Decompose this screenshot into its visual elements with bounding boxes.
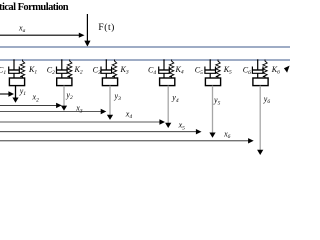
svg-text:tical Formulation: tical Formulation [0, 2, 69, 13]
force arrow F(t) [84, 14, 115, 47]
svg-text:K1: K1 [28, 65, 37, 76]
svg-text:y6: y6 [263, 95, 271, 106]
svg-text:x2: x2 [32, 93, 40, 104]
svg-text:C3: C3 [93, 66, 101, 77]
svg-text:C2: C2 [47, 66, 55, 77]
displacement arrow y2 [61, 86, 73, 111]
svg-text:C4: C4 [148, 66, 156, 77]
arrow x4 (horizontal reference) [0, 109, 165, 124]
arrow x6 (horizontal reference) [0, 129, 254, 143]
damper C6 [243, 59, 263, 78]
displacement arrow y5 [209, 86, 220, 138]
spring K2 [68, 60, 83, 79]
damper C3 [93, 59, 112, 78]
svg-text:x4: x4 [125, 109, 133, 120]
damper C2 [47, 59, 67, 78]
damper C4 [148, 59, 169, 78]
arrow x2 (horizontal reference) [0, 93, 62, 109]
svg-text:x3: x3 [75, 104, 83, 115]
svg-text:K3: K3 [120, 65, 129, 76]
svg-text:K6: K6 [271, 65, 280, 76]
svg-text:y4: y4 [171, 93, 179, 104]
mass M2 [57, 78, 72, 86]
svg-text:C5: C5 [195, 66, 203, 77]
spring K3 [112, 60, 129, 79]
svg-text:x5: x5 [178, 121, 186, 132]
spring K5 [216, 60, 232, 79]
svg-text:K5: K5 [223, 65, 232, 76]
spring K4 [169, 60, 183, 79]
mass M6 [253, 78, 268, 86]
displacement arrow y4 [165, 86, 179, 128]
svg-text:y3: y3 [114, 91, 122, 102]
arrow x1 (horizontal reference) [0, 91, 14, 96]
cut-off annotation arrowhead (points NE) at right edge [284, 66, 290, 73]
displacement arrow y1 [12, 86, 26, 103]
svg-text:y2: y2 [65, 90, 73, 101]
displacement arrow y3 [107, 86, 121, 120]
beam (rigid bar, bottom chord) [0, 59, 290, 61]
mass M5 [205, 78, 220, 86]
svg-text:xa: xa [18, 24, 26, 35]
spring K1 [20, 60, 37, 79]
damper C1 [0, 59, 19, 78]
displacement arrow y6 [257, 86, 270, 155]
svg-text:C6: C6 [243, 66, 251, 77]
svg-text:y1: y1 [19, 86, 27, 97]
damper C5 [195, 59, 216, 78]
svg-text:x6: x6 [223, 129, 231, 140]
beam (rigid bar, top chord) [0, 46, 290, 48]
spring K6 [263, 60, 280, 79]
mass M1 [9, 78, 24, 86]
arrow x3 (horizontal reference) [0, 104, 106, 115]
arrow x5 (horizontal reference) [0, 121, 202, 135]
arrow x_a (base excitation) [0, 24, 85, 38]
svg-text:y5: y5 [213, 96, 221, 107]
svg-text:C1: C1 [0, 66, 6, 77]
svg-text:K2: K2 [74, 65, 83, 76]
svg-text:F(t): F(t) [98, 22, 114, 33]
mass M3 [102, 78, 117, 86]
mass M4 [160, 78, 175, 86]
svg-text:K4: K4 [175, 65, 184, 76]
